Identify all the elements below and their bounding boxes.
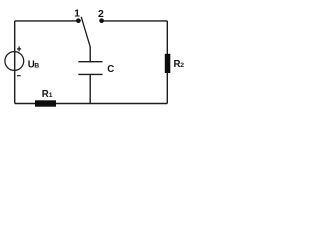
wire: left vertical through voltage source [14, 21, 16, 104]
svg-text:B: B [34, 63, 39, 70]
svg-text:1: 1 [49, 92, 53, 99]
svg-text:C: C [107, 64, 114, 75]
capacitor C top plate [78, 61, 102, 63]
wire: top-right horizontal from switch contact 2 to R2 branch [102, 20, 168, 22]
svg-text:2: 2 [180, 62, 184, 69]
svg-text:R: R [42, 89, 49, 100]
capacitor C bottom plate [78, 73, 102, 75]
wire: top-left horizontal from source branch to switch contact 1 [15, 20, 79, 22]
switch contact node 1 [76, 18, 81, 23]
plus sign [17, 46, 21, 51]
wire: bottom horizontal bus [15, 103, 168, 105]
resistor R1 body [35, 100, 56, 106]
svg-text:2: 2 [98, 8, 104, 20]
wire: right vertical through R2 [166, 21, 168, 104]
svg-text:1: 1 [74, 7, 80, 19]
resistor R2 body [165, 54, 171, 73]
voltage source UB circle [5, 52, 24, 71]
switch lever from contact 1 down to capacitor branch [81, 17, 90, 47]
wire: capacitor bottom plate to bottom bus [89, 74, 91, 103]
minus sign [17, 75, 21, 77]
wire: stub from lever elbow to capacitor top plate [89, 46, 91, 62]
switch contact node 2 [99, 18, 104, 23]
